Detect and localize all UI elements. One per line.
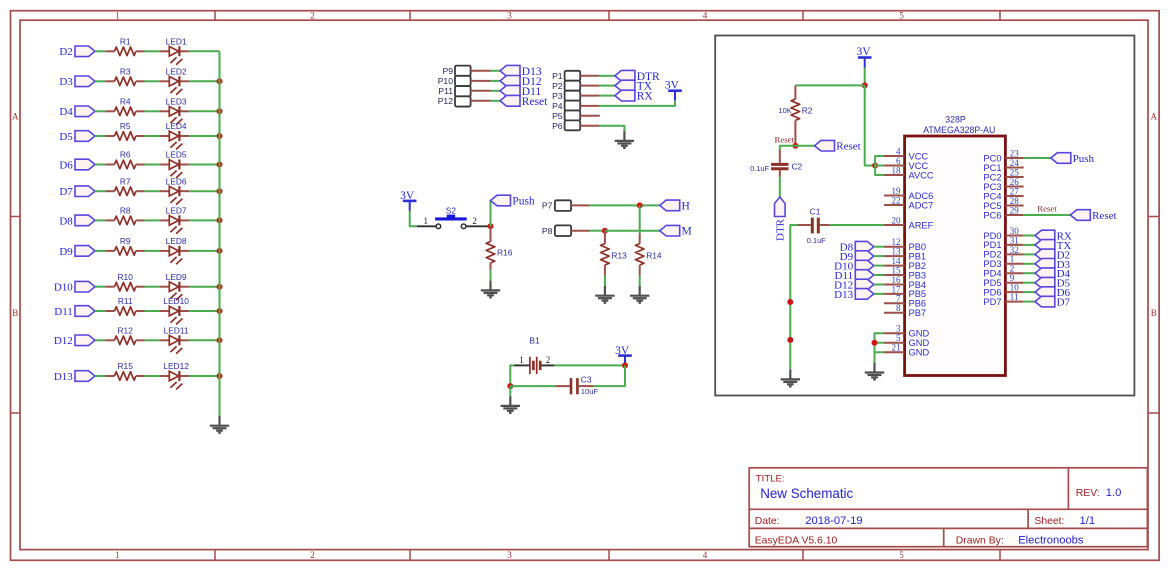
wire [599,95,615,97]
wire [189,190,219,192]
wire [145,310,161,312]
ground [781,370,800,387]
svg-text:PC0: PC0 [983,153,1001,163]
pin 30 PD0 [983,226,1023,241]
net flag DTR [775,197,787,241]
net flag D13 [500,65,542,77]
wire [865,85,875,165]
svg-text:PC1: PC1 [983,163,1001,173]
svg-text:D5: D5 [59,131,73,143]
wire [510,365,514,386]
wire [874,246,884,248]
resistor R9 [105,236,144,255]
svg-text:P2: P2 [552,81,563,91]
svg-text:A: A [12,112,19,122]
net flag Reset [1070,210,1116,222]
svg-text:LED6: LED6 [166,176,187,186]
svg-text:ADC7: ADC7 [909,200,934,210]
svg-text:Reset: Reset [1092,210,1116,222]
wire [874,255,884,257]
LED LED9 [160,272,189,300]
svg-text:PB7: PB7 [909,308,927,318]
wire [874,265,884,267]
svg-text:P1: P1 [552,71,563,81]
svg-text:R4: R4 [120,97,131,107]
LED LED3 [160,97,189,125]
svg-text:PC4: PC4 [983,191,1001,201]
resistor R10 [105,272,144,291]
pin 26 PC3 [983,177,1023,192]
resistor R2 [779,85,813,145]
wire [1024,244,1035,246]
svg-text:PD6: PD6 [983,287,1001,297]
svg-text:LED11: LED11 [164,326,189,336]
svg-text:5: 5 [899,550,904,560]
wire [509,386,511,396]
junction [792,143,798,149]
net flag D8 [840,241,874,253]
svg-text:R11: R11 [118,296,133,306]
LED LED7 [160,206,189,234]
svg-text:0.1uF: 0.1uF [750,164,769,173]
svg-text:PB1: PB1 [909,251,927,261]
wire [795,84,864,86]
svg-text:Electronoobs: Electronoobs [1018,535,1084,547]
svg-text:D11: D11 [54,306,73,318]
svg-text:ATMEGA328P-AU: ATMEGA328P-AU [923,125,995,135]
svg-text:AVCC: AVCC [909,170,934,180]
svg-text:C2: C2 [792,162,803,172]
svg-text:P12: P12 [438,96,454,106]
wire [145,135,161,137]
capacitor C1 [798,207,830,246]
port D13 [54,371,95,383]
wire [491,70,500,72]
net flag D12 [500,76,542,88]
connector P9-P12 [438,66,491,107]
svg-text:7: 7 [896,294,901,304]
junction [217,162,223,168]
junction [217,78,223,84]
resistor R3 [105,67,144,86]
svg-text:D9: D9 [59,246,73,258]
wire [830,224,884,226]
svg-text:1.0: 1.0 [1106,487,1122,499]
wire [1024,235,1035,237]
wire [95,80,105,82]
pin 31 PD1 [983,235,1023,250]
svg-text:13: 13 [892,247,902,257]
net flag TX [615,80,653,92]
wire [790,225,798,370]
svg-text:1: 1 [115,11,120,21]
svg-text:Reset: Reset [774,134,794,144]
ground [865,363,884,380]
wire [510,385,555,387]
port D12 [54,335,95,347]
svg-text:2018-07-19: 2018-07-19 [805,515,862,527]
connector P8 [542,225,590,236]
wire [145,50,161,52]
pin 3 GND [884,324,929,339]
resistor R14 [635,234,662,276]
net flag D7 [1035,296,1071,308]
wire [1024,282,1035,284]
wire [145,110,161,112]
svg-text:R8: R8 [120,206,131,216]
LED LED12 [160,361,189,389]
wire [95,110,105,112]
wire [95,219,105,221]
svg-text:R9: R9 [120,236,131,246]
svg-text:EasyEDA V5.6.10: EasyEDA V5.6.10 [755,536,838,547]
IC U1 ATMEGA328P-AU [905,115,1006,376]
svg-text:R3: R3 [120,67,131,77]
svg-text:REV:: REV: [1076,488,1100,499]
wire [189,339,219,341]
junction [872,163,878,169]
junction [637,202,643,208]
resistor R16 [486,226,513,270]
svg-text:24: 24 [1010,158,1020,168]
net flag D4 [1035,268,1071,280]
svg-text:31: 31 [1010,235,1019,245]
junction [217,133,223,139]
svg-text:D7: D7 [1057,297,1071,309]
junction [622,362,628,368]
pin 9 PD5 [983,273,1023,288]
wire [145,80,161,82]
svg-text:S2: S2 [446,206,457,216]
wire [145,164,161,166]
wire [780,146,796,150]
pin 17 PB5 [884,284,926,299]
wire [590,230,605,232]
pin 8 PB7 [884,303,926,318]
svg-text:2: 2 [472,216,477,226]
wire [1024,253,1035,255]
LED LED6 [160,176,189,204]
junction [602,228,608,234]
svg-text:PC6: PC6 [983,210,1001,220]
svg-text:10: 10 [1010,283,1020,293]
junction [488,223,494,229]
ground [501,396,520,413]
wire [599,75,615,77]
svg-text:Sheet:: Sheet: [1034,516,1064,527]
net flag Push [491,195,535,207]
pin 13 PB1 [884,247,926,262]
junction [862,82,868,88]
svg-text:GND: GND [909,338,930,348]
wire [1024,301,1035,303]
ground [481,281,500,298]
capacitor C2 [750,150,802,177]
svg-text:Reset: Reset [836,141,860,153]
svg-text:B: B [1151,308,1157,318]
junction [217,337,223,343]
wire [554,364,625,366]
pin 28 PC5 [983,196,1023,211]
svg-text:18: 18 [892,165,902,175]
LED LED10 [160,296,189,324]
svg-text:AREF: AREF [909,220,934,230]
net flag Push [1051,153,1095,165]
svg-text:4: 4 [703,11,708,21]
svg-text:H: H [682,200,690,212]
svg-text:R1: R1 [120,37,131,47]
resistor R4 [105,97,144,116]
junction [217,308,223,314]
junction [217,373,223,379]
svg-text:4: 4 [703,550,708,560]
svg-text:11: 11 [1010,292,1019,302]
net flag D13 [834,289,874,301]
power 3V [400,190,416,211]
svg-text:0.1uF: 0.1uF [807,236,826,245]
svg-text:TITLE:: TITLE: [756,473,785,484]
net flag D12 [834,279,874,291]
junction [217,248,223,254]
wire [189,250,219,252]
svg-text:Reset: Reset [1037,204,1057,214]
svg-text:LED9: LED9 [166,272,187,282]
svg-text:20: 20 [892,215,902,225]
svg-text:Date:: Date: [755,516,780,527]
svg-text:D8: D8 [59,215,73,227]
wire [639,275,641,286]
power 3V [856,46,871,68]
svg-text:PB3: PB3 [909,270,927,280]
wire [1024,157,1051,159]
pin 19 ADC6 [884,186,933,201]
junction [787,299,793,305]
wire [490,201,492,227]
svg-text:15: 15 [892,265,902,275]
wire [795,145,814,147]
wire [189,310,219,312]
net flag D11 [500,85,541,97]
ground [615,131,634,148]
net flag Reset [500,95,548,107]
wire [95,310,105,312]
wire [874,274,884,276]
svg-text:R12: R12 [118,326,134,336]
resistor R12 [105,326,144,345]
pin 25 PC2 [983,167,1023,182]
svg-text:RX: RX [637,91,654,103]
pin 16 PB4 [884,275,926,290]
pin 6 VCC [884,156,928,171]
svg-text:PC3: PC3 [983,182,1001,192]
wire bus [219,51,221,416]
net flag RX [615,90,653,102]
wire [189,80,219,82]
wire [874,293,884,295]
wire [95,135,105,137]
port D7 [59,186,95,198]
power 3V [665,80,682,101]
wire [1024,214,1071,216]
svg-text:P10: P10 [438,76,454,86]
svg-text:C3: C3 [581,375,592,385]
svg-text:R6: R6 [120,150,131,160]
pin 4 VCC [884,146,928,161]
svg-text:6: 6 [896,156,901,166]
svg-text:D3: D3 [59,76,73,88]
svg-text:New Schematic: New Schematic [760,486,853,501]
wire [491,80,500,82]
LED LED8 [160,236,189,264]
svg-text:A: A [1151,112,1158,122]
svg-text:P4: P4 [552,101,563,111]
svg-text:VCC: VCC [909,151,929,161]
pin 23 PC0 [983,148,1023,163]
wire [874,284,884,286]
svg-text:2: 2 [1010,264,1015,274]
svg-text:DTR: DTR [775,218,787,241]
svg-text:P7: P7 [542,201,553,211]
wire [864,68,866,86]
svg-text:27: 27 [1010,186,1020,196]
svg-text:10uF: 10uF [581,387,599,396]
wire [491,90,500,92]
wire [145,375,161,377]
wire [189,135,219,137]
capacitor C3 [555,375,598,397]
wire [593,365,625,386]
resistor R15 [105,361,144,380]
wire [189,50,219,52]
net flag TX [1035,240,1071,252]
junction [217,217,223,223]
svg-text:2: 2 [310,550,315,560]
net flag D10 [834,260,874,272]
svg-text:D2: D2 [59,46,72,58]
wire [95,250,105,252]
svg-text:PD4: PD4 [983,269,1001,279]
svg-text:R10: R10 [118,272,134,282]
svg-text:R7: R7 [120,176,131,186]
svg-text:GND: GND [909,348,930,358]
battery B1 [514,336,555,375]
svg-text:LED7: LED7 [166,206,187,216]
svg-text:D4: D4 [59,106,73,118]
svg-text:5: 5 [896,333,901,343]
pin 15 PB3 [884,265,926,280]
svg-text:28: 28 [1010,196,1020,206]
svg-text:P5: P5 [552,111,563,121]
svg-text:19: 19 [892,186,902,196]
wire [875,156,884,175]
junction [507,383,513,389]
pin 21 GND [884,343,929,358]
wire [491,100,500,102]
svg-text:LED4: LED4 [166,121,187,131]
wire [410,211,417,226]
wire [145,339,161,341]
pin 2 PD4 [983,264,1023,279]
svg-text:3V: 3V [856,46,871,58]
resistor R7 [105,176,144,195]
net label Reset [1037,204,1057,214]
svg-text:GND: GND [909,329,930,339]
wire [189,164,219,166]
wire [779,177,781,198]
wire [1024,263,1035,265]
svg-text:1/1: 1/1 [1080,515,1096,527]
port D10 [54,281,95,293]
wire [189,219,219,221]
resistor R11 [105,296,144,315]
wire [604,275,606,286]
switch S2 [417,206,491,229]
svg-text:5: 5 [899,11,904,21]
svg-text:22: 22 [892,195,901,205]
port D11 [54,306,95,318]
svg-text:P11: P11 [438,86,453,96]
port D6 [59,159,95,171]
net flag DTR [615,70,660,82]
svg-text:Push: Push [512,196,535,208]
svg-text:3: 3 [896,324,901,334]
svg-text:P8: P8 [542,226,553,236]
net flag D5 [1035,277,1071,289]
svg-text:ADC6: ADC6 [909,191,934,201]
net label Reset [774,134,794,144]
svg-text:R5: R5 [120,121,131,131]
svg-text:2: 2 [546,355,551,365]
net flag D2 [1035,249,1070,261]
junction [217,108,223,114]
svg-text:R16: R16 [497,247,513,257]
wire [590,204,660,206]
power 3V [615,345,632,366]
pin 29 PC6 [983,205,1023,220]
wire [875,333,885,363]
wire [145,219,161,221]
wire [95,190,105,192]
connector P1-P6 [552,71,600,131]
wire [95,375,105,377]
svg-text:D12: D12 [54,335,73,347]
port D8 [59,215,95,227]
wire [189,110,219,112]
connector P7 [542,200,590,211]
ground [595,286,614,303]
net flag D9 [840,251,874,263]
svg-text:23: 23 [1010,148,1020,158]
svg-text:4: 4 [896,146,901,156]
wire [95,286,105,288]
svg-text:26: 26 [1010,177,1020,187]
svg-text:LED5: LED5 [166,150,187,160]
junction [217,188,223,194]
pin 20 AREF [884,215,934,230]
svg-text:P9: P9 [442,66,453,76]
pin 11 PD7 [983,292,1023,307]
svg-text:LED2: LED2 [166,67,187,77]
net flag D11 [835,270,874,282]
pin 32 PD2 [983,245,1023,260]
port D2 [59,46,95,58]
resistor R1 [105,37,144,56]
wire [95,164,105,166]
svg-text:R14: R14 [646,250,662,260]
resistor R5 [105,121,144,140]
net flag D6 [1035,287,1071,299]
wire [95,50,105,52]
